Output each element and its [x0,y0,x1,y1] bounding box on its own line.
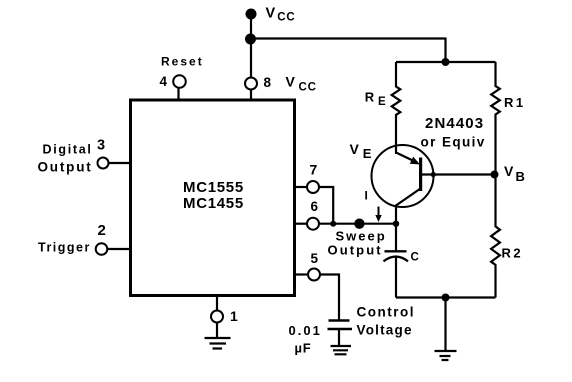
svg-text:Digital: Digital [43,143,93,157]
wire pin 3 [109,162,131,164]
junction dot VB node [491,171,499,179]
wire pin 4 stub [177,88,179,100]
wire pin 8 stub [250,90,252,101]
wire bottom rail [396,296,496,298]
capacitor 0.01uF bottom plate [328,328,353,330]
transistor Q1 emitter diagonal [396,153,418,163]
wire pin 7 down to sweep node [319,187,333,221]
svg-text:E: E [363,146,372,161]
wire ground stem (bottom rail) [444,298,446,351]
resistor R1 [491,62,500,175]
transistor Q1 2N4403 body circle [372,145,434,207]
svg-text:CC: CC [277,12,295,24]
wire 0.01uF to ground [338,329,340,346]
ground symbol (control voltage) [331,346,352,354]
svg-text:Reset: Reset [161,55,204,69]
svg-text:B: B [516,169,525,184]
pin 5 terminal circle [308,269,320,281]
wire top rail of transistor bias network [396,61,496,63]
pin 1 terminal circle [211,311,223,323]
junction dot base lead exits circle [431,172,436,177]
pin 2 terminal circle [96,243,108,255]
transistor Q1 emitter arrowhead [410,157,420,165]
transistor Q1 base bar [419,158,422,192]
svg-text:0.01: 0.01 [289,323,322,338]
wire pin 1 stub [216,296,218,311]
svg-text:C: C [411,251,419,263]
wire box to pin 6 [296,223,308,225]
junction dot bottom rail [442,294,450,302]
svg-text:Voltage: Voltage [357,323,413,338]
junction dot pin7/pin6 [330,221,336,227]
wire sweep output (pin 6 to collector) [319,223,396,225]
svg-text:4: 4 [160,74,168,89]
junction dot VCC terminal [246,9,257,20]
capacitor C bottom curved plate [384,257,409,262]
wire base lead to VB node [422,173,496,175]
svg-text:R2: R2 [502,245,524,260]
svg-text:Output: Output [38,160,93,175]
IC U1 MC1555 box [131,100,295,296]
svg-text:V: V [504,163,514,179]
svg-text:R1: R1 [504,95,526,110]
svg-text:Output: Output [328,243,383,258]
svg-text:Control: Control [357,305,416,320]
ground symbol (pin 1) [205,338,231,349]
wire VCC feed to right branch [251,39,446,63]
transistor Q1 collector diagonal and lead [396,189,421,252]
junction dot sweep output terminal [354,219,364,229]
svg-text:MC1455: MC1455 [183,195,244,212]
svg-text:E: E [378,96,386,108]
resistor RE [392,62,401,154]
wire pin 1 to ground [216,323,218,338]
wire pin 2 [107,248,130,250]
capacitor 0.01uF top plate [329,319,350,321]
junction dot top rail [442,58,450,66]
wire capacitor C to bottom rail [395,257,397,298]
junction dot collector node [393,221,399,227]
svg-text:3: 3 [97,138,105,154]
ground symbol (bottom rail) [435,351,457,360]
svg-text:2N4403: 2N4403 [425,115,484,132]
svg-text:5: 5 [311,251,319,266]
svg-text:Sweep: Sweep [336,229,387,244]
svg-text:I: I [365,189,368,203]
svg-text:1: 1 [230,308,238,324]
svg-text:µF: µF [295,341,312,356]
junction dot VCC branch [245,34,256,45]
svg-text:V: V [266,6,276,22]
svg-text:R: R [365,90,375,105]
pin 7 terminal circle [307,181,319,193]
svg-text:2: 2 [98,222,106,239]
wire box to pin 7 [296,186,308,188]
svg-text:8: 8 [264,75,272,90]
svg-text:6: 6 [311,199,319,214]
capacitor C top plate [385,250,407,252]
svg-text:V: V [286,74,296,90]
pin 3 terminal circle [98,158,109,169]
pin 8 terminal circle [245,78,257,90]
resistor R2 [491,175,500,298]
svg-text:MC1555: MC1555 [183,179,244,196]
wire pin 5 to control capacitor [320,275,339,321]
pin 4 terminal circle [173,75,186,88]
svg-text:CC: CC [299,82,317,94]
svg-text:Trigger: Trigger [38,241,91,255]
svg-text:7: 7 [310,162,318,178]
current arrow I [378,207,380,217]
svg-text:V: V [350,141,360,157]
wire box to pin 5 [296,273,308,275]
wire VCC terminal vertical down to pin 8 [250,14,252,78]
pin 6 terminal circle [307,218,319,230]
svg-text:or Equiv: or Equiv [421,135,486,150]
